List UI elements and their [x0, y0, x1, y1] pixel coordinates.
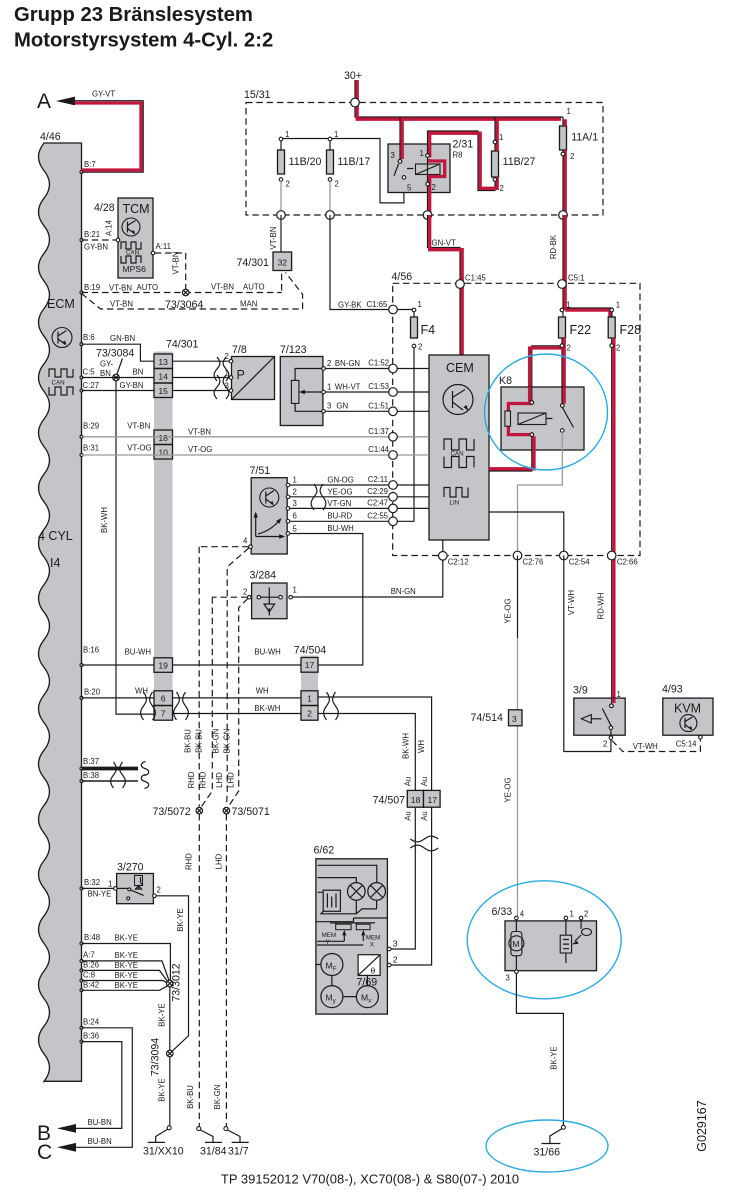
wire BK-YE splice to ground 31/XX10	[158, 1057, 170, 1126]
svg-text:73/5072: 73/5072	[153, 806, 191, 818]
svg-text:BU-RD: BU-RD	[327, 512, 352, 521]
wires B:48 A:7 B:26 C:8 B:42 BK-YE to splice 73/3012	[82, 934, 171, 991]
temperature sensor 7/69	[357, 955, 381, 989]
svg-text:C1:51: C1:51	[368, 401, 389, 410]
svg-text:BK-YE: BK-YE	[115, 951, 138, 960]
connector labels on 4/56	[367, 274, 638, 567]
svg-text:1: 1	[225, 369, 229, 378]
splice 73/3012	[167, 963, 183, 1001]
svg-text:C1:45: C1:45	[465, 274, 486, 283]
svg-text:73/3012: 73/3012	[171, 963, 183, 1001]
wires C2 rows into CEM	[393, 485, 429, 508]
svg-text:RD-BK: RD-BK	[549, 234, 558, 259]
svg-text:F22: F22	[570, 323, 592, 337]
svg-text:2: 2	[584, 910, 588, 919]
svg-text:2: 2	[225, 352, 229, 361]
wire WH-VT 7/123 pin1 to C1:53	[325, 383, 393, 393]
svg-text:G029167: G029167	[695, 1100, 709, 1151]
svg-text:I4: I4	[50, 556, 60, 570]
rotated wire labels RHD/LHD columns	[184, 729, 236, 1110]
svg-text:11B/17: 11B/17	[338, 156, 371, 168]
twisted pair symbol	[214, 375, 229, 399]
svg-text:17: 17	[305, 660, 315, 670]
svg-text:4 CYL: 4 CYL	[38, 529, 73, 543]
svg-text:4/46: 4/46	[40, 131, 61, 143]
wire B:38	[82, 775, 149, 789]
wire dashed RHD2 from 3/284:2	[201, 597, 248, 807]
TCM module 4/28	[94, 198, 171, 278]
wire BK-YE 6/33:3 to ground 31/66	[516, 973, 563, 1125]
svg-text:4: 4	[520, 910, 525, 919]
svg-text:A:14: A:14	[105, 219, 114, 236]
svg-text:Motorstyrsystem 4-Cyl. 2:2: Motorstyrsystem 4-Cyl. 2:2	[14, 30, 273, 52]
svg-text:VT-OG: VT-OG	[188, 445, 212, 454]
svg-text:B:36: B:36	[83, 1032, 99, 1041]
fuel pump unit 6/33	[492, 906, 597, 983]
wire C1:65 to F4 pin1	[393, 309, 412, 311]
svg-text:C1:53: C1:53	[368, 382, 389, 391]
svg-text:P: P	[237, 368, 245, 382]
wire C2:12 stub from CEM bottom	[442, 540, 444, 556]
svg-text:6: 6	[293, 512, 297, 521]
svg-text:3/284: 3/284	[250, 570, 277, 582]
svg-text:73/3094: 73/3094	[150, 1038, 162, 1076]
svg-text:GN-BN: GN-BN	[110, 334, 135, 343]
svg-text:RD-WH: RD-WH	[597, 593, 606, 620]
svg-text:YE-OG: YE-OG	[504, 598, 513, 623]
svg-text:VT-BN: VT-BN	[172, 252, 181, 275]
svg-text:B:38: B:38	[83, 771, 99, 780]
svg-text:18: 18	[158, 433, 168, 443]
svg-text:A: A	[37, 90, 51, 113]
svg-text:31/XX10: 31/XX10	[143, 1146, 184, 1158]
svg-text:VT-WH: VT-WH	[567, 590, 576, 615]
dashed box 15/31	[244, 89, 603, 215]
svg-text:C2:54: C2:54	[569, 558, 590, 567]
wire dashed VT-WH 3/9:2 to 4/93 C5:14	[612, 739, 700, 752]
connector 74/514 pin 3	[471, 710, 523, 726]
svg-text:B:21: B:21	[84, 230, 100, 239]
svg-text:BK-YE: BK-YE	[115, 961, 138, 970]
wire GY-BK fuse 11B/17 to C1:65	[330, 215, 393, 310]
svg-text:BN: BN	[100, 369, 111, 378]
svg-text:BN-YE: BN-YE	[88, 890, 112, 899]
svg-text:15: 15	[158, 386, 168, 396]
ECM pin labels	[83, 160, 112, 1041]
svg-text:VT-BN: VT-BN	[110, 300, 133, 309]
connector 74/504 strip	[294, 645, 327, 722]
svg-text:GY-BN: GY-BN	[120, 381, 144, 390]
wire red branch 30+ bus to relay pin 3	[400, 117, 402, 160]
svg-text:7/51: 7/51	[250, 465, 271, 477]
svg-text:14: 14	[158, 371, 168, 381]
wire dashed LHD2 from 3/284:2	[228, 599, 248, 808]
svg-text:BK-YE: BK-YE	[115, 981, 138, 990]
fuse 11B/17	[327, 130, 371, 189]
svg-text:M: M	[512, 939, 519, 949]
twisted pair symbol	[174, 692, 189, 720]
pressure sensor 7/8	[225, 344, 275, 400]
splice 73/3064	[165, 289, 203, 311]
fuse 11A/1	[560, 107, 599, 161]
wire B:6 GN-BN to pin13	[82, 334, 155, 361]
svg-text:B:29: B:29	[83, 422, 99, 431]
svg-text:B:6: B:6	[83, 333, 95, 342]
svg-text:1: 1	[617, 690, 621, 699]
svg-text:BK-YE: BK-YE	[550, 1046, 559, 1069]
wire dashed RHD1 from 7/51:4	[199, 547, 249, 807]
splice 73/3084 on C:5 wire	[96, 348, 134, 381]
svg-text:TCM: TCM	[123, 202, 150, 216]
svg-text:1: 1	[567, 107, 571, 116]
svg-text:LHD: LHD	[215, 853, 224, 869]
svg-text:3: 3	[393, 939, 398, 949]
twisted pair symbol	[311, 484, 326, 510]
arrow B out (bottom left)	[37, 1118, 112, 1145]
wire BK-YE 3/270:2 down to splice 73/3094	[156, 896, 188, 1052]
svg-text:1: 1	[566, 301, 570, 310]
svg-text:74/504: 74/504	[294, 645, 327, 657]
svg-text:5: 5	[407, 184, 412, 193]
svg-text:RHD: RHD	[199, 771, 208, 788]
svg-text:Au: Au	[404, 777, 413, 787]
twisted pair symbol (horizontal)	[410, 836, 438, 851]
fuse F28	[608, 301, 641, 353]
svg-text:VT-OG: VT-OG	[127, 444, 151, 453]
svg-text:BK-YE: BK-YE	[158, 1003, 167, 1026]
svg-text:3: 3	[225, 382, 229, 391]
wire dashed B:21 to TCM A:14	[82, 239, 117, 241]
blue circle around K8	[485, 354, 608, 470]
wire GN 7/123 pin3 to C1:51	[325, 402, 393, 412]
svg-text:7/8: 7/8	[232, 344, 247, 356]
arrow C out (bottom left)	[37, 1137, 112, 1164]
accelerator pedal sensor 7/51	[243, 465, 298, 554]
svg-text:BK-WH: BK-WH	[100, 507, 109, 533]
svg-text:2: 2	[157, 886, 161, 895]
svg-text:C2:11: C2:11	[368, 475, 388, 484]
wire fuse 11B/20 output stub (gray)	[280, 181, 282, 215]
svg-text:3: 3	[506, 974, 510, 983]
svg-text:KVM: KVM	[674, 702, 701, 716]
svg-text:LHD: LHD	[215, 772, 224, 788]
combined instrument panel 6/62	[314, 845, 398, 1015]
svg-text:2: 2	[616, 344, 620, 353]
wire BK-WH splice 73/3084 down to pin7	[100, 381, 154, 714]
svg-text:AUTO: AUTO	[137, 283, 159, 292]
svg-text:VT-BN: VT-BN	[127, 422, 150, 431]
svg-text:C: C	[37, 1141, 52, 1164]
svg-text:C1:37: C1:37	[368, 427, 389, 436]
svg-text:C2:55: C2:55	[367, 511, 388, 520]
control module KVM 4/93	[662, 684, 713, 749]
svg-text:A:7: A:7	[83, 951, 95, 960]
svg-text:3: 3	[293, 499, 297, 508]
svg-text:B:24: B:24	[83, 1018, 100, 1027]
wire VT-BN B:29 to C1:37 (gray)	[82, 422, 394, 437]
wire dashed BK-GN splice to ground 31/7	[225, 814, 227, 1126]
svg-text:11B/20: 11B/20	[289, 156, 322, 168]
fuse F22	[559, 301, 592, 353]
wire VT-GN 7/51:3 to C2:47	[290, 499, 393, 508]
K8 relay	[499, 375, 584, 450]
svg-text:C1:44: C1:44	[368, 445, 389, 454]
svg-text:C:5: C:5	[83, 368, 96, 377]
svg-text:YE-OG: YE-OG	[504, 777, 513, 802]
svg-text:RHD: RHD	[187, 771, 196, 788]
svg-text:1: 1	[293, 476, 297, 485]
svg-text:BK-BU: BK-BU	[186, 1085, 195, 1109]
wire BN-GN 3/284:1 to C2:12	[292, 558, 442, 598]
svg-text:MEM: MEM	[322, 932, 336, 939]
fuse 11B/27	[492, 133, 536, 193]
svg-text:2: 2	[570, 152, 574, 161]
ECM pin stubs	[80, 171, 83, 1044]
svg-text:3/270: 3/270	[117, 862, 144, 874]
svg-text:K8: K8	[499, 375, 512, 387]
svg-text:F4: F4	[421, 323, 436, 337]
svg-text:BK-WH: BK-WH	[254, 704, 280, 713]
svg-text:CEM: CEM	[446, 361, 474, 375]
svg-text:10: 10	[158, 447, 168, 457]
svg-text:C2:47: C2:47	[367, 498, 388, 507]
K8 switch	[530, 387, 574, 432]
svg-text:BK-BU: BK-BU	[195, 729, 204, 753]
svg-text:C2:29: C2:29	[367, 487, 388, 496]
twisted pair symbol	[141, 692, 156, 720]
relay 2/31 R8	[388, 139, 473, 193]
wire B:37 shield (thick)	[82, 762, 149, 776]
svg-text:1: 1	[293, 586, 297, 595]
wire red F22 output to K8 switch and coil	[530, 338, 565, 406]
fuel pump relay switch 3/284	[243, 570, 297, 619]
svg-text:31/7: 31/7	[228, 1146, 249, 1158]
svg-text:2: 2	[293, 487, 297, 496]
wire BU-WH 7/51:5 to 74/504:17	[290, 524, 363, 665]
dashed box 4/56	[392, 271, 641, 556]
svg-text:3: 3	[391, 151, 395, 160]
svg-text:VT-BN: VT-BN	[109, 284, 132, 293]
svg-text:BK-YE: BK-YE	[176, 908, 185, 931]
ECM module 4/46 block	[38, 131, 82, 1081]
svg-text:BU-WH: BU-WH	[125, 648, 151, 657]
svg-text:WH: WH	[256, 687, 269, 696]
wire VT-OG B:31 to C1:44 (gray)	[82, 444, 394, 456]
wire red 30+ bus to 11B/27 and loop to relay pin 1	[426, 117, 498, 191]
wires C1 rows into CEM	[393, 369, 429, 412]
svg-text:VT-BN: VT-BN	[211, 283, 234, 292]
svg-text:VT-BN: VT-BN	[188, 428, 211, 437]
svg-text:B:7: B:7	[84, 160, 96, 169]
svg-text:7/69: 7/69	[357, 977, 378, 989]
svg-text:BK-YE: BK-YE	[115, 934, 138, 943]
svg-text:YE-OG: YE-OG	[327, 487, 352, 496]
svg-text:4/56: 4/56	[392, 271, 413, 283]
wire F4 pin2 down to C2:55 row	[393, 348, 414, 522]
svg-text:73/5071: 73/5071	[232, 806, 270, 818]
junction circles on 15/31 box	[351, 98, 360, 107]
wire BN-GN 7/123 pin2 to C1:52	[325, 359, 393, 369]
svg-text:LHD: LHD	[227, 772, 236, 788]
svg-text:CAN: CAN	[52, 380, 65, 387]
wire red RD-BK 11A/1 to C5:1 to F22 F28	[549, 215, 612, 317]
svg-text:BU-WH: BU-WH	[327, 524, 353, 533]
fuse F4	[411, 300, 436, 352]
wire B:32 BN-YE to 3/270	[82, 887, 114, 889]
svg-text:19: 19	[158, 661, 168, 671]
arrow A out (top left)	[37, 90, 75, 113]
svg-text:GY-BK: GY-BK	[338, 301, 362, 310]
splice 73/5072	[153, 806, 203, 818]
svg-text:2: 2	[286, 180, 290, 189]
svg-text:GY-BN: GY-BN	[84, 243, 108, 252]
svg-text:C2:76: C2:76	[523, 558, 544, 567]
wire red F28 output RD-WH down to 3/9	[597, 338, 614, 706]
svg-text:B:42: B:42	[83, 981, 99, 990]
svg-text:1: 1	[418, 300, 422, 309]
wire YE-OG C2:76 down to 6/33 (black then gray)	[504, 556, 518, 917]
wire dashed MAN from B:19	[82, 273, 303, 310]
svg-text:X: X	[370, 941, 374, 948]
svg-text:ECM: ECM	[47, 297, 75, 311]
svg-text:3/9: 3/9	[573, 685, 588, 697]
wire BK-YE splice to splice	[158, 987, 170, 1050]
svg-text:1: 1	[327, 383, 331, 392]
wire VT-BN fuse 11B/20 to connector 74/301:32	[269, 215, 281, 252]
svg-text:BK-BU: BK-BU	[184, 729, 193, 753]
svg-text:74/514: 74/514	[471, 712, 504, 724]
svg-text:RHD: RHD	[185, 853, 194, 870]
svg-text:BK-GN: BK-GN	[213, 1085, 222, 1110]
svg-text:2: 2	[307, 708, 312, 718]
svg-text:GN: GN	[336, 402, 348, 411]
splice 73/5071	[223, 806, 270, 818]
svg-text:C2:12: C2:12	[448, 558, 469, 567]
svg-text:74/301: 74/301	[166, 339, 199, 351]
wire red 11A/1 output RD-BK down	[563, 117, 565, 215]
ground 31/7	[224, 1127, 249, 1158]
svg-text:1: 1	[334, 130, 338, 139]
svg-text:B:31: B:31	[83, 444, 99, 453]
svg-text:2: 2	[432, 183, 436, 192]
connector 74/507 pins 18 17	[373, 733, 441, 821]
svg-text:BK-YE: BK-YE	[158, 1078, 167, 1101]
svg-text:AUTO: AUTO	[243, 283, 265, 292]
svg-text:MAN: MAN	[240, 300, 257, 309]
svg-text:BU-BN: BU-BN	[88, 1118, 112, 1127]
wire gray K8 switch to C2:76	[518, 432, 563, 555]
wire WH 74/504:1 to 74/507:17 to 6/62:2	[318, 697, 432, 965]
svg-text:2: 2	[603, 740, 607, 749]
svg-text:1: 1	[307, 694, 312, 704]
svg-text:Au: Au	[404, 811, 413, 821]
svg-text:Au: Au	[420, 811, 429, 821]
svg-text:3: 3	[512, 714, 517, 724]
svg-text:BK-GN: BK-GN	[223, 729, 232, 754]
wire BK-WH pin7 to 74/504:2	[173, 704, 302, 714]
svg-text:F28: F28	[620, 323, 642, 337]
svg-text:GN-OG: GN-OG	[327, 476, 353, 485]
blue circle around 31/66	[486, 1120, 608, 1172]
svg-text:73/3084: 73/3084	[96, 348, 134, 360]
svg-text:17: 17	[428, 795, 438, 805]
wire dashed TCM A:11 VT-BN down to splice	[155, 252, 186, 291]
svg-text:73/3064: 73/3064	[165, 299, 203, 311]
ECM transistor symbol	[52, 328, 72, 348]
svg-text:BN-GN: BN-GN	[335, 359, 360, 368]
svg-text:1: 1	[285, 130, 289, 139]
svg-text:Au: Au	[420, 777, 429, 787]
pin circle overlays	[398, 140, 613, 707]
wires pins 13,14,15 to 7/8	[173, 361, 230, 390]
svg-text:TP 39152012 V70(08-), XC70(08-: TP 39152012 V70(08-), XC70(08-) & S80(07…	[221, 1172, 519, 1187]
wire B:24 to arrow C	[76, 1028, 132, 1148]
svg-text:1: 1	[570, 910, 574, 919]
wire relay pin5 to fuse 11B/20 11B/17 tops	[281, 139, 404, 203]
svg-text:B:19: B:19	[84, 283, 100, 292]
svg-text:1: 1	[420, 149, 424, 158]
svg-text:LIN: LIN	[450, 500, 460, 507]
svg-text:74/301: 74/301	[237, 257, 270, 269]
connector 74/301 pin 32	[237, 252, 292, 271]
fuel pump shut-off switch 3/9	[573, 685, 625, 749]
svg-text:WH: WH	[135, 687, 148, 696]
svg-text:18: 18	[411, 795, 421, 805]
svg-text:BU-BN: BU-BN	[88, 1137, 112, 1146]
svg-text:C1:52: C1:52	[368, 359, 389, 368]
svg-text:2: 2	[243, 588, 247, 597]
svg-text:6/33: 6/33	[492, 906, 513, 918]
node 30+ power feed	[344, 70, 362, 82]
svg-text:7/123: 7/123	[280, 344, 307, 356]
wire 30+ bus (red) into 15/31 box	[355, 80, 563, 119]
wire red K8 coil wrap	[505, 401, 534, 437]
svg-text:C5:1: C5:1	[568, 274, 584, 283]
wire dashed LHD1 from 7/51:4	[227, 548, 249, 806]
svg-text:30+: 30+	[344, 70, 362, 82]
wire WH B:20 to 74/504:1	[82, 687, 302, 698]
wire GY-VT from ECM B:7 to arrow A (red)	[75, 90, 143, 173]
svg-text:11B/27: 11B/27	[503, 156, 536, 168]
svg-text:C5:14: C5:14	[676, 740, 697, 749]
svg-text:2: 2	[327, 359, 331, 368]
svg-text:1: 1	[499, 133, 503, 142]
svg-text:B:37: B:37	[83, 757, 99, 766]
svg-text:B:16: B:16	[83, 646, 99, 655]
wire BU-WH B:16 to 74/504:17	[82, 648, 302, 666]
wire VT-WH CEM to C2:54	[489, 512, 564, 556]
svg-text:A:11: A:11	[156, 242, 171, 251]
svg-text:B:26: B:26	[83, 961, 99, 970]
wire BK-WH 74/504:2 to 74/507:18 to 6/62:3	[318, 714, 415, 950]
svg-text:GN-VT: GN-VT	[432, 239, 456, 248]
svg-text:11A/1: 11A/1	[571, 132, 598, 144]
wire VT-WH C2:54 down to 3/9 pin2	[564, 556, 611, 752]
ECM CAN symbol	[49, 369, 73, 377]
blue circle around 6/33	[467, 881, 621, 999]
svg-text:2: 2	[335, 180, 339, 189]
svg-text:C2:66: C2:66	[617, 558, 638, 567]
ground 31/XX10	[143, 1126, 184, 1158]
wire red relay coil wrap pin1 to pin2 and out	[426, 157, 445, 215]
wire C:27 GY-BN to pin15	[82, 381, 155, 391]
svg-text:BK-GN: BK-GN	[212, 729, 221, 754]
CEM module	[429, 355, 489, 540]
svg-text:2: 2	[418, 343, 422, 352]
svg-text:VT-GN: VT-GN	[327, 499, 351, 508]
wire C:5 BN to pin14	[82, 368, 155, 378]
wire dashed AUTO from B:19	[82, 271, 282, 293]
